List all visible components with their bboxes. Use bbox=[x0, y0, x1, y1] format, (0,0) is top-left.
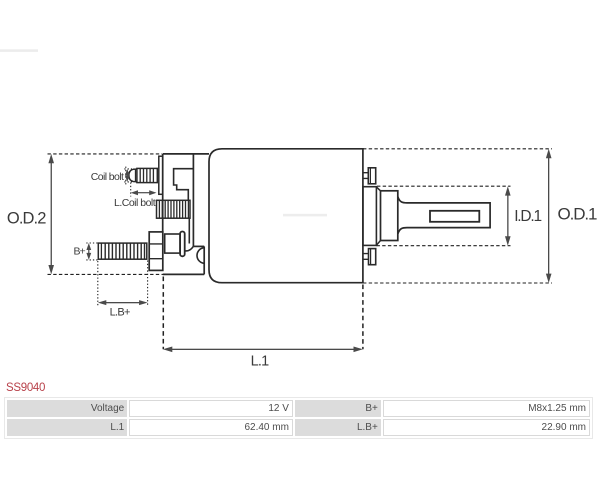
svg-text:Coil bolt: Coil bolt bbox=[91, 171, 124, 183]
O.D.1 bottom extension dashed bbox=[363, 282, 552, 284]
cap boss arc bump bbox=[197, 248, 204, 264]
O.D.2 bottom extension dashed bbox=[48, 273, 165, 275]
O.D.1 top extension dashed bbox=[363, 148, 552, 150]
cap lower inner line bbox=[188, 218, 190, 243]
coil bolt dotted box bbox=[124, 167, 132, 185]
plunger barrel bbox=[398, 197, 490, 234]
solenoid main body bbox=[209, 149, 363, 283]
coil bolt threaded block bbox=[157, 200, 191, 218]
svg-text:B+: B+ bbox=[73, 246, 85, 258]
svg-text:L.Coil bolt: L.Coil bolt bbox=[114, 197, 156, 209]
svg-text:L.B+: L.B+ bbox=[110, 307, 130, 319]
plunger cone diagonals bbox=[376, 187, 380, 245]
cap boss ledge bbox=[193, 245, 204, 247]
plunger washer bbox=[363, 187, 377, 246]
svg-text:O.D.1: O.D.1 bbox=[558, 204, 598, 223]
cap left edge bbox=[162, 154, 164, 232]
L.1 right extension dashed bbox=[362, 285, 364, 350]
Coil bolt dimension arrow bbox=[125, 169, 130, 182]
svg-text:O.D.2: O.D.2 bbox=[7, 209, 46, 227]
L.B+ right extension dotted bbox=[147, 261, 149, 307]
cap boss right edge bbox=[203, 246, 205, 274]
B+ stud bbox=[98, 243, 147, 259]
I.D.1 top extension dashed bbox=[377, 185, 511, 187]
cap bottom edge bbox=[163, 273, 204, 275]
L.B+ dimension arrow bbox=[98, 300, 148, 305]
L.B+ left extension dotted bbox=[97, 261, 99, 306]
plunger slot bbox=[430, 211, 479, 222]
watermark faint bbox=[0, 49, 327, 216]
terminal block bbox=[165, 234, 180, 253]
spec table bbox=[5, 398, 592, 438]
flange strip bbox=[159, 156, 163, 194]
B+ nut bbox=[149, 232, 163, 271]
B+ dotted box bbox=[86, 243, 97, 260]
coil bolt bbox=[129, 168, 157, 182]
svg-text:I.D.1: I.D.1 bbox=[514, 208, 541, 225]
L.Coil bolt left dotted extension bbox=[130, 183, 132, 197]
upper mounting bolt bbox=[363, 168, 376, 184]
O.D.2 top extension dashed bbox=[48, 153, 163, 155]
cap right edge bbox=[192, 154, 194, 247]
O.D.1 dimension arrow bbox=[546, 149, 552, 283]
cap inner step slot bbox=[174, 169, 194, 201]
O.D.2 dimension arrow bbox=[48, 154, 54, 275]
terminal washer bar bbox=[180, 232, 185, 257]
plunger flange bbox=[381, 191, 398, 241]
I.D.1 dimension arrow bbox=[505, 186, 511, 246]
L.1 dimension arrow bbox=[163, 347, 363, 353]
L.Coil bolt dimension arrow bbox=[131, 190, 157, 195]
L.1 left extension dashed bbox=[162, 277, 164, 350]
svg-text:L.1: L.1 bbox=[251, 353, 269, 369]
part number bbox=[6, 382, 45, 394]
lower mounting bolt bbox=[363, 249, 376, 265]
cap fillet curve bbox=[185, 246, 194, 251]
cap top edge bbox=[163, 153, 209, 155]
B+ dimension arrow bbox=[86, 243, 91, 260]
I.D.1 bottom extension dashed bbox=[377, 245, 511, 247]
